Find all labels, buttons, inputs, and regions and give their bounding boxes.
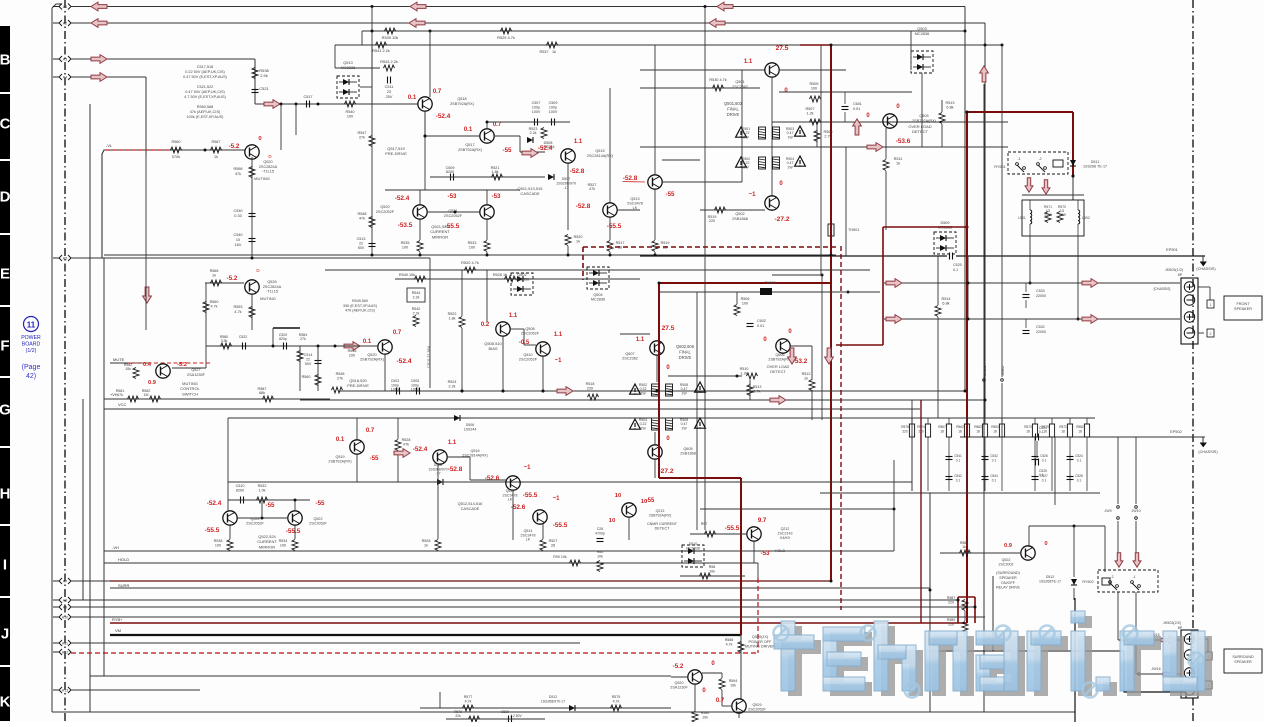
svg-text:DRIVE: DRIVE bbox=[679, 355, 692, 360]
svg-text:2SC2052F: 2SC2052F bbox=[246, 522, 264, 526]
svg-text:2SC2052F: 2SC2052F bbox=[376, 210, 395, 214]
svg-text:Q520(JX): Q520(JX) bbox=[752, 635, 769, 639]
svg-text:100: 100 bbox=[469, 246, 475, 250]
svg-text:Q606: Q606 bbox=[775, 353, 784, 357]
svg-text:R589: R589 bbox=[947, 618, 955, 622]
svg-text:C517,518: C517,518 bbox=[197, 65, 213, 69]
svg-text:-52.8: -52.8 bbox=[576, 203, 591, 210]
svg-text:Q501: Q501 bbox=[735, 80, 744, 84]
svg-text:C528: C528 bbox=[1075, 474, 1083, 478]
svg-text:ON/OFF: ON/OFF bbox=[1001, 581, 1016, 585]
svg-text:VCC: VCC bbox=[118, 402, 127, 407]
svg-text:10: 10 bbox=[236, 238, 240, 242]
svg-text:JK503(1/2): JK503(1/2) bbox=[1165, 268, 1183, 272]
svg-text:R533: R533 bbox=[468, 241, 477, 245]
svg-text:4.7k: 4.7k bbox=[234, 310, 241, 314]
svg-text:0.7: 0.7 bbox=[493, 122, 502, 128]
svg-text:LK: LK bbox=[526, 538, 531, 542]
svg-text:JW16: JW16 bbox=[1151, 667, 1160, 671]
svg-text:R529 4.7k: R529 4.7k bbox=[497, 35, 515, 40]
svg-text:1.1: 1.1 bbox=[554, 332, 563, 338]
svg-text:220: 220 bbox=[902, 430, 908, 434]
svg-text:Q510: Q510 bbox=[523, 353, 532, 357]
svg-text:C542: C542 bbox=[990, 454, 998, 458]
svg-text:4700p: 4700p bbox=[595, 531, 605, 535]
svg-text:-2: -2 bbox=[1038, 157, 1041, 161]
svg-text:1SS268TE-17: 1SS268TE-17 bbox=[1039, 579, 1061, 583]
svg-text:I: I bbox=[3, 557, 7, 574]
svg-text:-VL: -VL bbox=[106, 143, 113, 148]
svg-text:-52.6: -52.6 bbox=[485, 475, 500, 482]
svg-text:MIRROR: MIRROR bbox=[259, 544, 275, 549]
svg-text:-55: -55 bbox=[370, 455, 380, 462]
svg-text:23: 23 bbox=[387, 90, 391, 94]
svg-text:C510: C510 bbox=[236, 484, 245, 488]
svg-text:MC2836: MC2836 bbox=[915, 31, 930, 36]
svg-text:2SC2052F: 2SC2052F bbox=[748, 708, 766, 712]
svg-text:R520 4.7k: R520 4.7k bbox=[461, 260, 479, 265]
svg-text:Q520: Q520 bbox=[380, 205, 389, 209]
svg-text:R513: R513 bbox=[753, 385, 762, 389]
svg-text:100V: 100V bbox=[411, 388, 420, 392]
svg-text:R539 10k: R539 10k bbox=[382, 35, 399, 40]
svg-text:D506: D506 bbox=[466, 423, 475, 427]
svg-text:C540: C540 bbox=[233, 233, 242, 237]
svg-text:220: 220 bbox=[948, 623, 954, 627]
svg-text:R58: R58 bbox=[709, 565, 716, 569]
svg-text:1k: 1k bbox=[804, 377, 808, 381]
svg-text:LK: LK bbox=[508, 498, 513, 502]
svg-text:-5.2: -5.2 bbox=[673, 663, 684, 670]
svg-text:0.1: 0.1 bbox=[1039, 473, 1044, 477]
svg-text:2SB792A(RX): 2SB792A(RX) bbox=[450, 102, 475, 106]
svg-text:0.1: 0.1 bbox=[1039, 430, 1044, 434]
svg-text:A11: A11 bbox=[62, 642, 68, 646]
svg-text:0.1: 0.1 bbox=[956, 459, 961, 463]
svg-text:100: 100 bbox=[347, 115, 353, 119]
svg-text:820p: 820p bbox=[279, 337, 287, 341]
svg-text:~1: ~1 bbox=[553, 496, 561, 502]
svg-text:0.1: 0.1 bbox=[992, 479, 997, 483]
svg-text:1k: 1k bbox=[896, 162, 900, 166]
svg-text:DRIVE: DRIVE bbox=[727, 112, 740, 117]
svg-text:42): 42) bbox=[26, 373, 36, 380]
svg-text:10: 10 bbox=[609, 518, 615, 524]
svg-text:R598: R598 bbox=[233, 167, 242, 171]
svg-text:Q607: Q607 bbox=[625, 352, 634, 356]
svg-text:R577: R577 bbox=[464, 695, 473, 699]
svg-text:CASCADE: CASCADE bbox=[520, 191, 540, 196]
svg-text:2SC3478: 2SC3478 bbox=[627, 202, 643, 206]
svg-text:18: 18 bbox=[1026, 430, 1030, 434]
svg-text:0.33: 0.33 bbox=[234, 214, 241, 218]
svg-text:1W: 1W bbox=[787, 165, 793, 169]
svg-text:2W: 2W bbox=[743, 135, 749, 139]
svg-text:D510: D510 bbox=[689, 542, 698, 546]
svg-text:1k: 1k bbox=[552, 50, 556, 54]
svg-text:0.4: 0.4 bbox=[143, 362, 152, 368]
svg-text:R540 10k: R540 10k bbox=[399, 273, 415, 277]
svg-text:-1: -1 bbox=[1017, 157, 1020, 161]
svg-text:J: J bbox=[1, 626, 9, 643]
svg-text:R530 4.7k: R530 4.7k bbox=[709, 78, 726, 82]
svg-text:K4/K9: K4/K9 bbox=[780, 536, 790, 540]
svg-text:27k: 27k bbox=[337, 377, 343, 381]
svg-text:6.8k: 6.8k bbox=[946, 106, 953, 110]
svg-text:Q520: Q520 bbox=[674, 681, 683, 685]
svg-text:-55: -55 bbox=[646, 498, 655, 504]
svg-text:C544: C544 bbox=[990, 474, 998, 478]
svg-text:1/2W: 1/2W bbox=[1058, 213, 1067, 217]
svg-text:R532: R532 bbox=[258, 484, 267, 488]
svg-text:PRE-DRIVE: PRE-DRIVE bbox=[347, 383, 369, 388]
svg-text:Q520: Q520 bbox=[263, 160, 272, 164]
svg-text:22: 22 bbox=[306, 357, 310, 361]
svg-text:VM: VM bbox=[115, 628, 121, 633]
svg-text:C517: C517 bbox=[303, 95, 312, 99]
svg-text:R560,568: R560,568 bbox=[197, 105, 213, 109]
svg-text:1W: 1W bbox=[681, 426, 687, 430]
svg-text:570k: 570k bbox=[172, 155, 180, 159]
svg-text:E: E bbox=[0, 266, 10, 283]
svg-text:1SS268/970-17: 1SS268/970-17 bbox=[541, 699, 565, 703]
svg-text:R527: R527 bbox=[549, 539, 558, 543]
svg-text:TH502: TH502 bbox=[765, 281, 776, 285]
svg-text:D512: D512 bbox=[549, 695, 557, 699]
svg-text:11: 11 bbox=[27, 321, 36, 330]
svg-text:0.7: 0.7 bbox=[716, 698, 725, 704]
svg-text:C520: C520 bbox=[953, 263, 962, 267]
svg-text:-VH: -VH bbox=[112, 545, 119, 550]
svg-text:1.8k: 1.8k bbox=[449, 317, 456, 321]
svg-text:27k: 27k bbox=[300, 337, 306, 341]
svg-text:A13: A13 bbox=[62, 689, 68, 693]
svg-text:R587: R587 bbox=[947, 596, 955, 600]
svg-text:2SC2362: 2SC2362 bbox=[622, 357, 638, 361]
svg-text:470 (AEP,UK,CIS): 470 (AEP,UK,CIS) bbox=[345, 309, 375, 313]
svg-text:PRE-DRIVE: PRE-DRIVE bbox=[385, 151, 407, 156]
svg-text:50V: 50V bbox=[358, 246, 365, 250]
svg-text:47k: 47k bbox=[359, 217, 365, 221]
svg-text:-55: -55 bbox=[666, 191, 676, 198]
svg-text:R528: R528 bbox=[422, 539, 431, 543]
svg-text:22000: 22000 bbox=[1036, 330, 1046, 334]
svg-text:1M: 1M bbox=[144, 393, 149, 397]
svg-text:-53.6: -53.6 bbox=[896, 138, 911, 145]
svg-text:C532: C532 bbox=[1036, 325, 1045, 329]
svg-text:-53.5: -53.5 bbox=[398, 222, 413, 229]
svg-text:HOLD: HOLD bbox=[118, 557, 129, 562]
svg-text:2SC2002: 2SC2002 bbox=[999, 562, 1014, 566]
svg-text:R511: R511 bbox=[894, 157, 903, 161]
svg-text:100: 100 bbox=[742, 302, 748, 306]
svg-text:C526: C526 bbox=[1040, 454, 1048, 458]
svg-text:47k: 47k bbox=[589, 187, 595, 191]
svg-text:4.7k: 4.7k bbox=[465, 700, 472, 704]
svg-text:0.1: 0.1 bbox=[1042, 479, 1047, 483]
svg-text:100p: 100p bbox=[532, 105, 540, 109]
svg-text:2: 2 bbox=[1210, 332, 1212, 336]
svg-text:Q502: Q502 bbox=[735, 212, 744, 216]
svg-text:3.9k: 3.9k bbox=[221, 339, 228, 343]
svg-text:1.2k: 1.2k bbox=[806, 112, 813, 116]
svg-text:0.1: 0.1 bbox=[1042, 459, 1047, 463]
svg-text:(CHASSIS): (CHASSIS) bbox=[1196, 267, 1216, 271]
svg-text:10: 10 bbox=[615, 493, 621, 499]
svg-text:2SA1230F: 2SA1230F bbox=[670, 686, 688, 690]
svg-text:R507: R507 bbox=[805, 107, 814, 111]
svg-text:0.47 50V (AEP,UK,CIS): 0.47 50V (AEP,UK,CIS) bbox=[185, 90, 225, 94]
svg-text:C521: C521 bbox=[259, 86, 269, 91]
svg-text:MUTING: MUTING bbox=[254, 176, 270, 181]
svg-text:-5.2: -5.2 bbox=[229, 143, 240, 150]
svg-text:R567: R567 bbox=[938, 425, 946, 429]
svg-text:~1: ~1 bbox=[749, 192, 757, 198]
svg-text:R560: R560 bbox=[171, 140, 180, 144]
svg-text:MUTE: MUTE bbox=[113, 357, 125, 362]
svg-text:220: 220 bbox=[709, 219, 715, 223]
svg-text:L502: L502 bbox=[1082, 216, 1090, 220]
svg-text:C541: C541 bbox=[954, 454, 962, 458]
svg-text:18: 18 bbox=[1078, 430, 1082, 434]
svg-text:R588: R588 bbox=[725, 638, 734, 642]
svg-text:2.2k: 2.2k bbox=[413, 312, 420, 316]
svg-text:28: 28 bbox=[551, 544, 555, 548]
svg-text:22000: 22000 bbox=[1036, 294, 1046, 298]
svg-text:EP502: EP502 bbox=[1170, 429, 1182, 434]
svg-text:-55.5: -55.5 bbox=[205, 527, 220, 534]
svg-text:CNMR CURRENT: CNMR CURRENT bbox=[647, 522, 678, 526]
svg-text:JW8/1: JW8/1 bbox=[983, 366, 987, 376]
svg-text:(Page: (Page bbox=[22, 364, 41, 371]
svg-text:1.0k: 1.0k bbox=[259, 489, 266, 493]
svg-text:D: D bbox=[0, 189, 11, 206]
svg-text:R60: R60 bbox=[597, 550, 604, 554]
svg-text:16V: 16V bbox=[235, 243, 242, 247]
svg-text:JK503(2/2): JK503(2/2) bbox=[1163, 621, 1181, 625]
svg-text:C602: C602 bbox=[757, 319, 766, 323]
svg-text:-52.4: -52.4 bbox=[396, 358, 411, 365]
svg-text:Q516: Q516 bbox=[470, 449, 479, 453]
svg-text:R512: R512 bbox=[802, 372, 811, 376]
svg-text:-55: -55 bbox=[503, 147, 513, 154]
svg-text:FINAL: FINAL bbox=[727, 106, 739, 111]
svg-text:0.22 50V (AEP,UK,CIS): 0.22 50V (AEP,UK,CIS) bbox=[185, 70, 225, 74]
svg-text:2SB792A(RX): 2SB792A(RX) bbox=[328, 460, 351, 464]
svg-text:R519: R519 bbox=[661, 241, 670, 245]
svg-text:L501: L501 bbox=[1018, 216, 1026, 220]
svg-text:-5.2: -5.2 bbox=[227, 275, 238, 282]
svg-text:Q605: Q605 bbox=[683, 447, 692, 451]
svg-text:50V: 50V bbox=[305, 362, 312, 366]
svg-text:25V: 25V bbox=[386, 95, 393, 99]
svg-text:R594: R594 bbox=[729, 679, 738, 683]
svg-text:D512: D512 bbox=[1046, 575, 1054, 579]
svg-text:R506: R506 bbox=[741, 297, 750, 301]
svg-text:-2: -2 bbox=[1110, 575, 1113, 579]
svg-text:D507: D507 bbox=[562, 177, 571, 181]
svg-text:FINAL: FINAL bbox=[679, 349, 691, 354]
svg-text:CASCADE: CASCADE bbox=[461, 506, 480, 511]
svg-text:C533: C533 bbox=[1036, 289, 1045, 293]
svg-text:MUTING DRIVER: MUTING DRIVER bbox=[745, 645, 776, 649]
svg-text:390 (E,EST,XP,AUS): 390 (E,EST,XP,AUS) bbox=[343, 304, 377, 308]
svg-text:R573: R573 bbox=[1024, 425, 1032, 429]
svg-text:R537: R537 bbox=[539, 50, 548, 54]
svg-text:Q504: Q504 bbox=[593, 293, 602, 297]
svg-text:18: 18 bbox=[993, 430, 997, 434]
svg-text:C514: C514 bbox=[304, 353, 313, 357]
svg-text:R518: R518 bbox=[586, 382, 595, 386]
svg-text:100: 100 bbox=[215, 544, 221, 548]
svg-text:18: 18 bbox=[958, 430, 962, 434]
svg-text:R534: R534 bbox=[279, 539, 288, 543]
svg-text:C601: C601 bbox=[853, 102, 862, 106]
svg-text:A8: A8 bbox=[63, 599, 67, 603]
svg-text:-1: -1 bbox=[1132, 575, 1135, 579]
svg-text:FRONT: FRONT bbox=[1236, 302, 1250, 306]
svg-text:27.5: 27.5 bbox=[776, 45, 789, 52]
svg-text:R578: R578 bbox=[901, 425, 909, 429]
svg-text:10k: 10k bbox=[730, 684, 736, 688]
svg-text:(SURROUND): (SURROUND) bbox=[996, 571, 1020, 575]
svg-text:DETECT: DETECT bbox=[770, 369, 786, 374]
svg-text:0.2: 0.2 bbox=[481, 322, 490, 328]
svg-text:Q519: Q519 bbox=[335, 455, 344, 459]
svg-text:SURR: SURR bbox=[118, 583, 129, 588]
svg-text:R542: R542 bbox=[412, 307, 421, 311]
svg-text:R505: R505 bbox=[809, 82, 818, 86]
svg-text:Q526: Q526 bbox=[267, 280, 276, 284]
svg-text:8P: 8P bbox=[1178, 273, 1183, 277]
svg-text:D511: D511 bbox=[1091, 160, 1100, 164]
svg-text:Q513: Q513 bbox=[630, 197, 639, 201]
svg-text:Q520: Q520 bbox=[367, 353, 376, 357]
svg-text:220: 220 bbox=[948, 601, 954, 605]
svg-text:C529: C529 bbox=[501, 710, 509, 714]
svg-text:-55: -55 bbox=[266, 502, 276, 509]
svg-text:R543 2.2k: R543 2.2k bbox=[380, 59, 398, 64]
svg-text:SWITCH: SWITCH bbox=[182, 391, 198, 396]
svg-text:R560: R560 bbox=[210, 300, 219, 304]
svg-text:Q501,502: Q501,502 bbox=[724, 101, 743, 106]
svg-text:100p: 100p bbox=[549, 105, 557, 109]
svg-text:-55.5: -55.5 bbox=[523, 492, 538, 499]
svg-text:POWER OFF: POWER OFF bbox=[749, 640, 773, 644]
svg-text:2SC2052F: 2SC2052F bbox=[519, 358, 538, 362]
svg-text:22k: 22k bbox=[455, 714, 461, 718]
svg-text:1W: 1W bbox=[681, 391, 687, 395]
svg-text:-55: -55 bbox=[316, 500, 326, 507]
svg-text:H: H bbox=[0, 486, 10, 503]
svg-text:18: 18 bbox=[976, 430, 980, 434]
svg-text:2.9k: 2.9k bbox=[260, 73, 268, 78]
svg-text:-27.2: -27.2 bbox=[774, 216, 789, 223]
svg-text:0.1: 0.1 bbox=[992, 459, 997, 463]
svg-text:R520: R520 bbox=[574, 235, 583, 239]
svg-text:2SB792A(RX): 2SB792A(RX) bbox=[912, 119, 937, 123]
svg-text:TH501: TH501 bbox=[848, 228, 859, 232]
svg-text:MIRROR: MIRROR bbox=[432, 234, 448, 239]
svg-text:C26: C26 bbox=[597, 527, 604, 531]
svg-text:-52.4: -52.4 bbox=[538, 145, 553, 152]
svg-text:C542: C542 bbox=[954, 474, 962, 478]
svg-text:1SS268 TE-17: 1SS268 TE-17 bbox=[1083, 165, 1107, 169]
svg-text:D509: D509 bbox=[940, 221, 949, 225]
svg-text:100: 100 bbox=[811, 87, 817, 91]
svg-text:4.7k: 4.7k bbox=[211, 305, 218, 309]
svg-text:100V: 100V bbox=[549, 110, 558, 114]
svg-text:-55.5: -55.5 bbox=[286, 528, 301, 535]
svg-text:4.7k: 4.7k bbox=[726, 643, 733, 647]
svg-text:1k: 1k bbox=[424, 544, 428, 548]
svg-text:R540: R540 bbox=[345, 110, 354, 114]
svg-text:A4: A4 bbox=[63, 76, 67, 80]
svg-text:JW9: JW9 bbox=[1104, 509, 1111, 513]
svg-text:0.9: 0.9 bbox=[1004, 543, 1013, 549]
svg-text:C509: C509 bbox=[549, 101, 558, 105]
svg-text:SPEAKER: SPEAKER bbox=[1234, 660, 1252, 664]
svg-text:0.01: 0.01 bbox=[853, 107, 860, 111]
svg-text:10k: 10k bbox=[597, 555, 603, 559]
svg-text:47k (AEP,UK,CIS): 47k (AEP,UK,CIS) bbox=[190, 110, 221, 114]
svg-text:R593: R593 bbox=[233, 305, 242, 309]
svg-text:Q522: Q522 bbox=[1002, 558, 1011, 562]
svg-text:1.1: 1.1 bbox=[574, 139, 583, 145]
svg-text:1.1: 1.1 bbox=[509, 313, 518, 319]
svg-text:1k: 1k bbox=[962, 545, 966, 549]
svg-text:R538: R538 bbox=[214, 539, 223, 543]
svg-text:0.01: 0.01 bbox=[757, 324, 764, 328]
svg-text:R572: R572 bbox=[1059, 425, 1067, 429]
svg-text:MC2838: MC2838 bbox=[686, 546, 700, 550]
svg-text:B: B bbox=[0, 52, 11, 69]
svg-text:10k: 10k bbox=[709, 570, 715, 574]
svg-text:A2: A2 bbox=[63, 22, 67, 26]
svg-text:R57: R57 bbox=[701, 522, 708, 526]
svg-text:RY502: RY502 bbox=[1082, 580, 1093, 584]
svg-text:2.7k: 2.7k bbox=[754, 390, 761, 394]
svg-text:-55.5: -55.5 bbox=[607, 223, 622, 230]
svg-text:A1: A1 bbox=[63, 5, 67, 9]
svg-text:A10: A10 bbox=[62, 616, 68, 620]
svg-text:C521,522: C521,522 bbox=[197, 85, 213, 89]
svg-text:-5.2: -5.2 bbox=[177, 362, 187, 368]
svg-text:2W: 2W bbox=[743, 165, 749, 169]
svg-text:1k: 1k bbox=[214, 155, 218, 159]
svg-text:2.2k: 2.2k bbox=[449, 385, 456, 389]
svg-text:1k: 1k bbox=[576, 240, 580, 244]
svg-text:-52.4: -52.4 bbox=[436, 113, 451, 120]
svg-text:1SS268/970: 1SS268/970 bbox=[556, 181, 576, 185]
svg-text:F: F bbox=[0, 338, 9, 355]
svg-text:0.1: 0.1 bbox=[956, 479, 961, 483]
svg-text:8200: 8200 bbox=[446, 170, 454, 174]
svg-text:SPEAKER: SPEAKER bbox=[999, 576, 1017, 580]
svg-text:0.47 50V (E,EST,XP,AUS): 0.47 50V (E,EST,XP,AUS) bbox=[183, 75, 228, 79]
svg-text:R568: R568 bbox=[210, 269, 219, 273]
svg-text:Q515: Q515 bbox=[595, 149, 604, 153]
svg-text:BOARD: BOARD bbox=[22, 341, 41, 347]
svg-text:+VH: +VH bbox=[110, 393, 118, 397]
svg-text:R582: R582 bbox=[974, 425, 982, 429]
svg-text:-52.8: -52.8 bbox=[448, 466, 463, 473]
svg-text:R575: R575 bbox=[612, 695, 621, 699]
svg-text:DETECT: DETECT bbox=[912, 129, 929, 134]
svg-text:-53: -53 bbox=[448, 193, 458, 200]
svg-text:4.7k: 4.7k bbox=[613, 700, 620, 704]
svg-text:MC2836: MC2836 bbox=[515, 278, 529, 282]
